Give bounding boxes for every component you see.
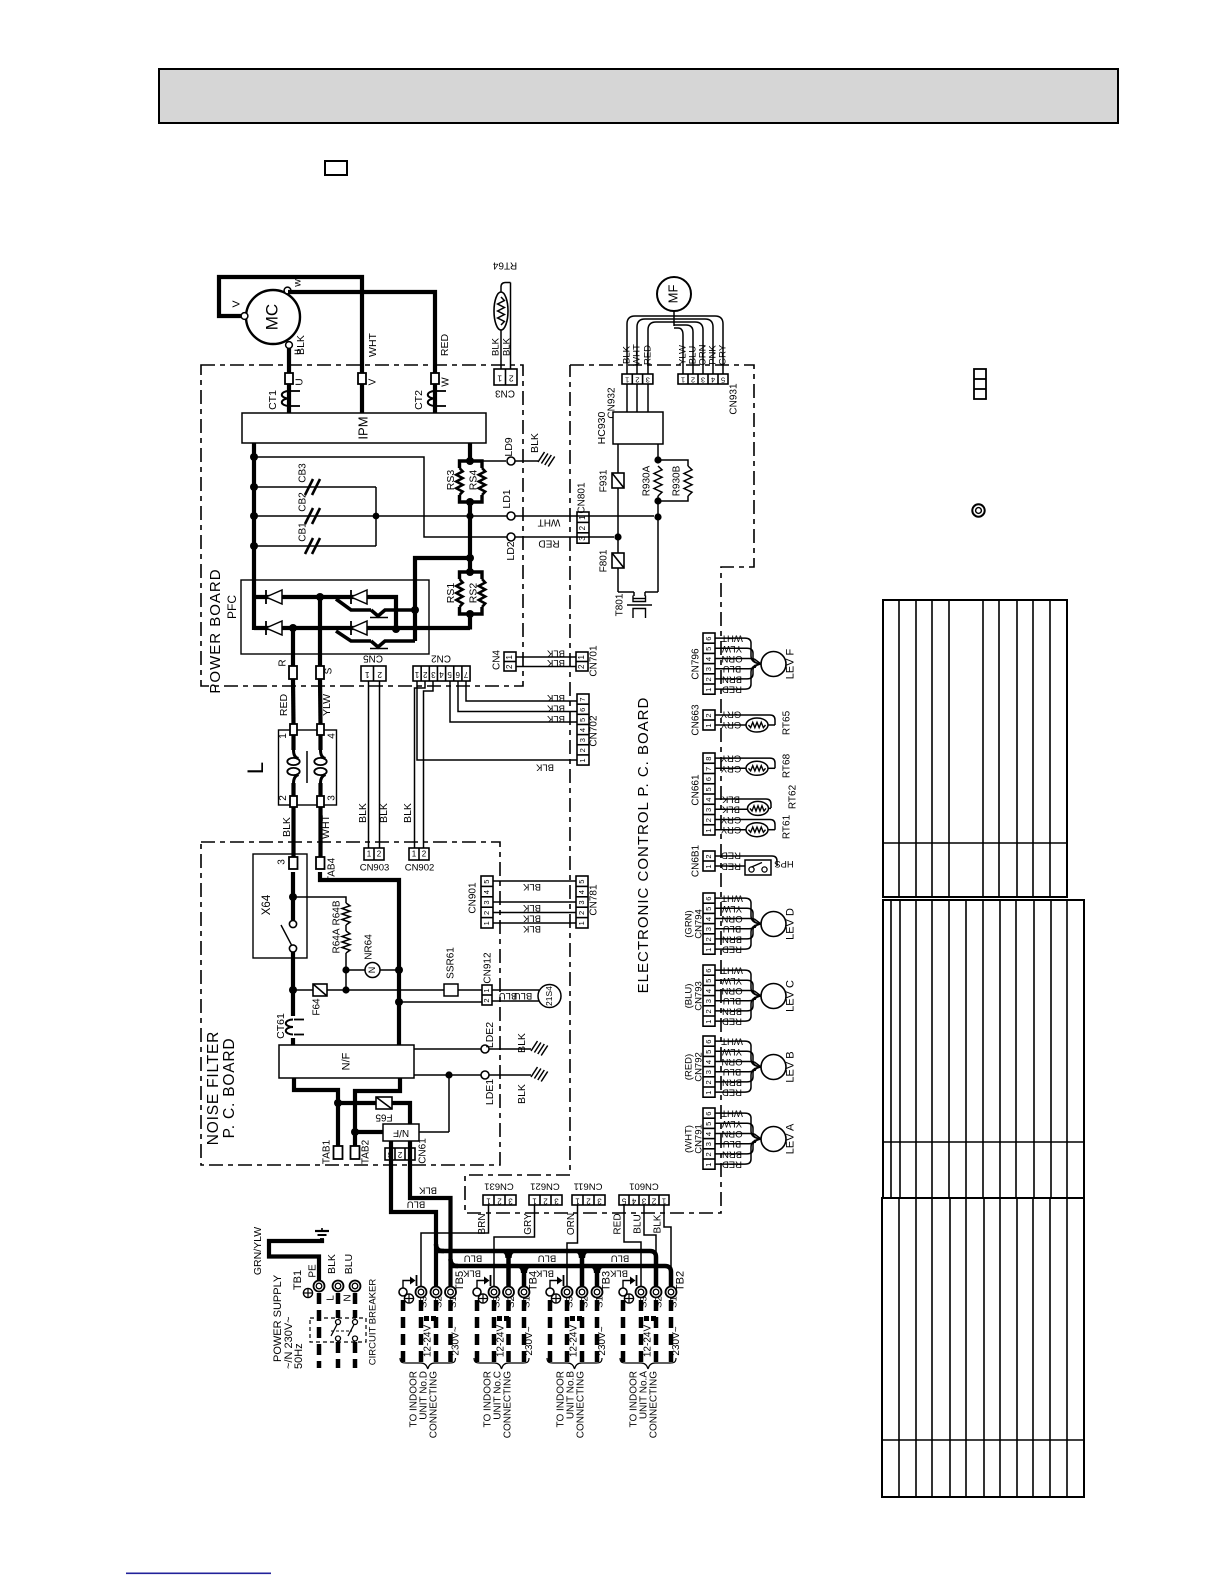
- BLU bus: [436, 1244, 656, 1287]
- svg-text:5: 5: [482, 880, 491, 884]
- svg-text:POWER BOARD: POWER BOARD: [207, 568, 224, 693]
- svg-text:HC930: HC930: [596, 411, 608, 444]
- circuit breaker box: [310, 1318, 366, 1342]
- svg-text:2: 2: [704, 1009, 713, 1013]
- svg-text:2: 2: [704, 1152, 713, 1156]
- svg-text:CN4: CN4: [492, 650, 503, 670]
- svg-text:BLU: BLU: [343, 1254, 355, 1274]
- wires CN792 to LEV B: [715, 1041, 761, 1092]
- svg-text:4: 4: [704, 657, 713, 661]
- BLK bus drops: [517, 1266, 604, 1287]
- svg-text:2: 2: [586, 1196, 591, 1205]
- solenoid valve 21S4: [538, 985, 561, 1008]
- svg-text:2: 2: [704, 677, 713, 681]
- svg-text:2: 2: [509, 373, 514, 383]
- wire CT61 to NF: [291, 1038, 295, 1045]
- legend connector symbol: [974, 369, 986, 399]
- svg-text:PFC: PFC: [225, 595, 239, 619]
- svg-text:3: 3: [578, 738, 587, 742]
- svg-text:LD9: LD9: [503, 437, 515, 456]
- svg-text:1: 1: [704, 1091, 713, 1095]
- svg-text:3: 3: [482, 900, 491, 904]
- LD2 indicator: [505, 533, 517, 561]
- POWER BOARD outline: [201, 365, 523, 686]
- svg-text:MC: MC: [262, 304, 281, 330]
- wire CN61 BLK to TB5 S1: [410, 1160, 451, 1287]
- svg-text:F801: F801: [599, 549, 610, 572]
- TB5 brace: [400, 1358, 456, 1369]
- svg-text:5: 5: [721, 376, 725, 385]
- svg-text:BLK: BLK: [402, 803, 414, 823]
- svg-text:RED: RED: [278, 693, 290, 716]
- LD9 indicator: [470, 437, 538, 465]
- connector CN796: [691, 633, 715, 694]
- small blank box: [325, 161, 347, 175]
- connector CN621: [529, 1180, 562, 1205]
- svg-text:TAB4: TAB4: [327, 857, 338, 882]
- fuse F801: [599, 549, 624, 572]
- svg-text:BLK: BLK: [522, 902, 541, 913]
- TB3 field wiring dashes: [550, 1300, 597, 1365]
- svg-text:3: 3: [387, 1150, 392, 1159]
- svg-text:4: 4: [704, 989, 713, 993]
- capacitor CB3: [254, 463, 376, 495]
- connector CN61: [385, 1138, 429, 1164]
- svg-text:1: 1: [486, 1196, 491, 1205]
- svg-text:21S4: 21S4: [544, 986, 554, 1006]
- svg-text:RS4: RS4: [467, 470, 479, 491]
- svg-text:BLK: BLK: [418, 1184, 437, 1195]
- wire MC V phase: [219, 277, 362, 413]
- svg-text:BLK: BLK: [546, 657, 565, 668]
- wire GRY CN621 to TB4 S3: [494, 1205, 535, 1287]
- compressor motor MC: [246, 290, 300, 344]
- TB4 earth mark: [478, 1294, 487, 1303]
- svg-text:BLU: BLU: [538, 1252, 557, 1263]
- wire R phase: [291, 628, 296, 725]
- svg-text:2: 2: [577, 911, 586, 915]
- wire labels CN661: [720, 752, 741, 835]
- svg-text:CN663: CN663: [691, 704, 702, 736]
- svg-text:P. C. BOARD: P. C. BOARD: [221, 1038, 238, 1139]
- svg-text:4: 4: [327, 733, 338, 739]
- svg-text:PE: PE: [308, 1264, 319, 1278]
- svg-text:N/F: N/F: [340, 1052, 352, 1070]
- wire labels CN792: [721, 1036, 743, 1098]
- connector TAB4: [316, 857, 338, 882]
- svg-text:3: 3: [704, 667, 713, 671]
- TB4 voltage labels: [496, 1325, 536, 1358]
- svg-text:TB4: TB4: [527, 1271, 539, 1291]
- connector CN601: [619, 1180, 669, 1205]
- svg-text:RS1: RS1: [445, 583, 457, 604]
- svg-text:2: 2: [704, 937, 713, 941]
- resistors RS1 RS2: [445, 568, 485, 618]
- svg-text:X64: X64: [261, 894, 273, 915]
- branch to R64: [293, 897, 346, 903]
- svg-text:230V~: 230V~: [451, 1326, 462, 1355]
- svg-text:N: N: [367, 967, 377, 974]
- svg-text:CN792: CN792: [694, 1052, 705, 1082]
- svg-text:CN702: CN702: [589, 715, 600, 747]
- ELECTRONIC CONTROL label: [635, 697, 652, 994]
- svg-text:CN903: CN903: [360, 863, 390, 874]
- svg-text:LDE1: LDE1: [484, 1079, 496, 1105]
- CIRCUIT BREAKER label: [368, 1279, 379, 1366]
- connector S: [316, 666, 335, 679]
- svg-text:2: 2: [691, 376, 695, 385]
- svg-text:GRY: GRY: [523, 1213, 534, 1235]
- svg-text:F64: F64: [312, 998, 323, 1016]
- terminal block TB3: [546, 1275, 603, 1298]
- svg-text:1: 1: [505, 654, 514, 659]
- svg-text:BLK: BLK: [522, 881, 541, 892]
- svg-text:5: 5: [447, 670, 452, 679]
- terminal block TB1: [314, 1281, 361, 1292]
- svg-text:2: 2: [422, 850, 427, 859]
- svg-text:1: 1: [365, 670, 370, 680]
- svg-text:T801: T801: [615, 593, 626, 616]
- svg-text:1: 1: [575, 1196, 580, 1205]
- MC terminal W: [284, 287, 291, 294]
- capacitor joining wire: [373, 487, 380, 546]
- svg-text:CN701: CN701: [589, 645, 600, 677]
- svg-text:BLK: BLK: [502, 337, 513, 356]
- svg-text:BLK: BLK: [535, 761, 554, 772]
- TB3 TO INDOOR label: [556, 1371, 587, 1439]
- svg-text:BLU: BLU: [611, 1252, 630, 1263]
- wires CN2 to CN702: [450, 681, 577, 724]
- wires CN5 to CN903: [357, 681, 390, 848]
- TB1 labels: [292, 1254, 355, 1302]
- PFC diode D3: [266, 621, 282, 635]
- wire NF small to LDE1: [419, 1075, 449, 1132]
- current transformer CT2: [413, 390, 446, 410]
- svg-text:CN912: CN912: [483, 952, 494, 984]
- NOISE FILTER label: [205, 1031, 238, 1145]
- expansion valve LEV A: [761, 1123, 796, 1154]
- wire ORN CN611 to TB3 S3: [566, 1205, 577, 1287]
- svg-text:5: 5: [704, 1050, 713, 1054]
- TB5 polarity squares: [424, 1316, 436, 1321]
- svg-text:4: 4: [578, 728, 587, 732]
- svg-text:3: 3: [704, 1142, 713, 1146]
- connector CN701: [576, 645, 600, 677]
- TB2 field wiring dashes: [623, 1300, 671, 1365]
- svg-text:RT62: RT62: [788, 784, 799, 809]
- svg-text:BRN: BRN: [477, 1213, 488, 1234]
- svg-text:BLK: BLK: [546, 692, 565, 703]
- POWER BOARD label: [207, 568, 224, 693]
- label RED R wire: [278, 693, 290, 716]
- svg-text:CN796: CN796: [691, 648, 702, 680]
- svg-text:TAB1: TAB1: [322, 1139, 333, 1164]
- svg-text:CONNECTING: CONNECTING: [503, 1371, 514, 1438]
- current transformer CT1: [267, 390, 300, 410]
- terminal block TB2: [619, 1275, 677, 1298]
- wire CN61 BLU to TB5 S2: [391, 1160, 436, 1287]
- TB4 labels: [492, 1271, 540, 1308]
- svg-text:6: 6: [704, 969, 713, 973]
- wire R64A to node: [342, 953, 349, 994]
- svg-text:1: 1: [407, 1150, 412, 1159]
- wire MC U phase: [287, 348, 291, 413]
- svg-text:CN901: CN901: [468, 882, 479, 914]
- resistor R64A: [332, 925, 350, 954]
- wire CN2 pin1 to CN702: [417, 681, 577, 772]
- svg-text:4: 4: [631, 1196, 636, 1205]
- TB3 earth mark: [551, 1294, 560, 1303]
- wire MC W phase: [288, 292, 435, 413]
- current transformer CT61: [275, 1013, 304, 1039]
- svg-text:1: 1: [532, 1196, 537, 1205]
- svg-text:LDE2: LDE2: [484, 1022, 496, 1048]
- connector CN6B1: [691, 844, 715, 877]
- wires CN932 to HC930: [627, 384, 648, 412]
- TB1 field wiring dashes: [319, 1293, 355, 1368]
- svg-text:1: 1: [704, 828, 713, 832]
- svg-text:4: 4: [704, 1060, 713, 1064]
- reactor L coils: [287, 735, 326, 796]
- svg-text:4: 4: [482, 890, 491, 894]
- expansion valve LEV C: [761, 980, 796, 1012]
- TB3 brace: [547, 1358, 602, 1369]
- TB3 labels: [565, 1271, 613, 1308]
- fuse F931: [599, 469, 624, 492]
- svg-text:1: 1: [482, 988, 491, 992]
- legend table 1: [883, 600, 1067, 897]
- connector CN792: [684, 1036, 715, 1097]
- transformer T801: [615, 568, 658, 618]
- wire labels CN6B1: [721, 849, 741, 871]
- svg-text:1: 1: [577, 654, 586, 659]
- TB2 polarity squares: [644, 1316, 656, 1321]
- svg-text:3: 3: [508, 1196, 513, 1205]
- TB2 labels: [639, 1271, 687, 1308]
- svg-text:1: 1: [704, 1020, 713, 1024]
- wires CN912 to 21S4: [492, 990, 539, 1001]
- pressure switch HPS: [715, 856, 794, 875]
- wire BLK into noise filter area: [289, 872, 297, 920]
- connector CN631: [483, 1180, 516, 1205]
- svg-text:2: 2: [577, 664, 586, 669]
- IPM module: [242, 413, 486, 443]
- svg-text:7: 7: [704, 767, 713, 771]
- MC terminal labels: [230, 279, 303, 355]
- wire BLK below reactor: [281, 807, 294, 858]
- svg-text:1: 1: [497, 373, 502, 383]
- connector CN931: [678, 374, 740, 415]
- svg-text:BLK: BLK: [546, 702, 565, 713]
- TB5 labels: [419, 1271, 466, 1308]
- connector CN781: [576, 876, 600, 928]
- svg-text:BLK: BLK: [516, 1084, 528, 1104]
- wire GRN YLW: [252, 1227, 322, 1281]
- svg-text:R64B: R64B: [332, 900, 343, 925]
- svg-text:RS3: RS3: [445, 470, 457, 491]
- MF wire color labels: [622, 344, 729, 366]
- connector CN912: [482, 952, 494, 1005]
- connector V: [358, 373, 379, 385]
- svg-text:ELECTRONIC CONTROL P. C. BOARD: ELECTRONIC CONTROL P. C. BOARD: [635, 697, 652, 994]
- PFC lower rail: [254, 626, 470, 630]
- svg-text:CN801: CN801: [577, 482, 588, 514]
- svg-text:BLU: BLU: [514, 990, 533, 1001]
- svg-text:RED: RED: [613, 1213, 624, 1234]
- connector CN611: [572, 1180, 605, 1205]
- wires CN796 to LEV F: [715, 638, 761, 689]
- svg-text:2: 2: [482, 998, 491, 1002]
- svg-text:CN601: CN601: [629, 1180, 659, 1191]
- svg-text:3: 3: [704, 1070, 713, 1074]
- thermistor RT65: [715, 710, 793, 735]
- wire F931 to RED node: [614, 488, 621, 553]
- wires CN794 to LEV D: [715, 898, 761, 949]
- HC930 block: [596, 411, 663, 444]
- svg-text:50Hz: 50Hz: [293, 1343, 305, 1369]
- reactor L box: [279, 730, 337, 805]
- PFC box: [225, 580, 429, 654]
- connector CN3: [494, 369, 517, 398]
- svg-text:2: 2: [397, 1150, 402, 1159]
- svg-text:LD2: LD2: [505, 541, 517, 560]
- svg-text:RED: RED: [721, 849, 741, 860]
- POWER SUPPLY label: [272, 1274, 305, 1369]
- svg-text:W: W: [441, 377, 452, 387]
- wires CN2 to CN902: [402, 681, 433, 848]
- TB4 TO INDOOR label: [483, 1371, 514, 1438]
- wire IPM right to RS3 RS4: [466, 443, 474, 465]
- svg-text:WHT: WHT: [320, 814, 332, 838]
- svg-text:BLU: BLU: [464, 1252, 483, 1263]
- svg-text:6: 6: [704, 897, 713, 901]
- TB5 voltage labels: [423, 1325, 462, 1358]
- LDE2 indicator: [414, 1022, 531, 1053]
- svg-text:7: 7: [578, 697, 587, 701]
- svg-text:2: 2: [704, 713, 713, 717]
- wire WHT below reactor: [320, 807, 332, 858]
- fan motor MF: [657, 277, 691, 311]
- svg-text:GRY: GRY: [718, 344, 729, 365]
- wire CN912 pin2: [399, 1001, 482, 1003]
- svg-text:GRN/YLW: GRN/YLW: [252, 1227, 264, 1275]
- BLU bus drops: [502, 1251, 590, 1287]
- svg-text:6: 6: [704, 1112, 713, 1116]
- svg-text:12-24V: 12-24V: [569, 1325, 580, 1358]
- svg-text:1: 1: [414, 670, 419, 679]
- connector CN903: [360, 848, 390, 874]
- wire RS34 to RS12: [466, 502, 474, 572]
- svg-text:RT61: RT61: [782, 814, 793, 839]
- fuse F65 branch: [338, 1097, 410, 1124]
- labels BLK RT64: [491, 337, 513, 356]
- reactor L pin connectors: [278, 724, 338, 807]
- svg-text:1: 1: [482, 921, 491, 925]
- wires CN901 to CN781: [493, 881, 576, 934]
- TB2 TO INDOOR label: [629, 1371, 660, 1439]
- wire TAB4 WHT elbow: [320, 872, 403, 1045]
- svg-text:CT61: CT61: [275, 1013, 287, 1039]
- noise filter NF block: [279, 1045, 414, 1078]
- svg-text:6: 6: [578, 708, 587, 712]
- svg-text:4: 4: [439, 670, 444, 679]
- connector CN661: [691, 753, 715, 835]
- svg-text:2: 2: [704, 854, 713, 858]
- svg-text:5: 5: [577, 880, 586, 884]
- LDE1 ground hatch: [531, 1067, 548, 1082]
- svg-text:230V~: 230V~: [597, 1326, 608, 1355]
- svg-text:3: 3: [597, 1196, 602, 1205]
- svg-text:CN611: CN611: [574, 1180, 603, 1191]
- TB3 voltage labels: [569, 1325, 609, 1358]
- svg-text:TAB2: TAB2: [361, 1139, 372, 1164]
- svg-text:5: 5: [704, 907, 713, 911]
- svg-text:BLK: BLK: [378, 803, 390, 823]
- svg-text:LEV B: LEV B: [784, 1051, 796, 1082]
- wire HC930 right leg: [654, 444, 661, 464]
- connector CN932: [607, 374, 653, 419]
- expansion valve LEV F: [761, 648, 796, 679]
- svg-text:1: 1: [367, 850, 372, 859]
- svg-text:LEV F: LEV F: [784, 648, 796, 679]
- earth symbol chassis: [315, 1228, 329, 1239]
- svg-text:LD1: LD1: [501, 489, 513, 508]
- svg-text:CN3: CN3: [495, 387, 515, 398]
- svg-text:RED: RED: [439, 333, 451, 356]
- terminal block TB4: [473, 1275, 530, 1298]
- connector CN794: [684, 893, 715, 954]
- svg-text:2: 2: [278, 795, 289, 801]
- svg-text:2: 2: [651, 1196, 656, 1205]
- wire color labels U V W: [295, 332, 451, 356]
- svg-text:3: 3: [646, 376, 650, 385]
- svg-text:230V~: 230V~: [524, 1326, 535, 1355]
- svg-text:4: 4: [577, 890, 586, 894]
- resistor R930A: [642, 465, 662, 496]
- label YLW S wire: [321, 694, 333, 716]
- svg-text:GRY: GRY: [720, 708, 741, 719]
- svg-text:CN61: CN61: [418, 1138, 429, 1164]
- svg-text:3: 3: [277, 859, 288, 865]
- svg-text:RT68: RT68: [782, 753, 793, 778]
- svg-text:4: 4: [711, 376, 715, 385]
- svg-text:BLU: BLU: [407, 1198, 426, 1209]
- svg-text:2: 2: [482, 911, 491, 915]
- svg-text:12-24V: 12-24V: [496, 1325, 507, 1358]
- thermistor RT61: [715, 814, 793, 839]
- svg-text:R930A: R930A: [642, 465, 653, 496]
- svg-text:WHT: WHT: [632, 344, 643, 366]
- svg-text:BLK: BLK: [529, 433, 541, 453]
- PFC IGBT Q1: [336, 599, 413, 618]
- legend table 3: [882, 1198, 1084, 1497]
- wire labels CN663: [720, 708, 741, 730]
- svg-text:5: 5: [704, 979, 713, 983]
- svg-text:RT64: RT64: [492, 259, 517, 270]
- terminal block TB5: [399, 1275, 456, 1298]
- svg-text:TB1: TB1: [292, 1270, 304, 1290]
- wire PFC output elbow: [411, 558, 470, 641]
- fuse F64: [293, 984, 444, 1016]
- NOISE FILTER board outline: [201, 842, 500, 1165]
- BLK bus labels: [462, 1267, 628, 1278]
- svg-text:NOISE FILTER: NOISE FILTER: [205, 1031, 222, 1145]
- svg-text:R64A: R64A: [332, 928, 343, 953]
- svg-text:BLU: BLU: [633, 1214, 644, 1233]
- connector CN902: [405, 848, 435, 874]
- svg-text:BLK: BLK: [546, 647, 565, 658]
- svg-text:BLK: BLK: [357, 803, 369, 823]
